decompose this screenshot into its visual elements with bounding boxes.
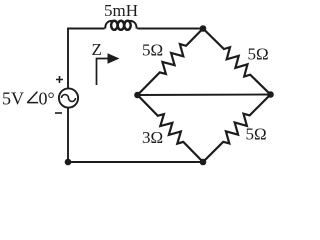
svg-text:3Ω: 3Ω: [142, 128, 163, 147]
node E bottom-left junction dot: [65, 159, 72, 166]
svg-text:0°: 0°: [39, 89, 55, 109]
resistor R2 5ohm top-right arm: [203, 29, 271, 95]
node B left junction dot: [134, 92, 141, 99]
svg-text:5Ω: 5Ω: [248, 44, 269, 63]
minus sign of source: [55, 112, 62, 114]
wire: left rail top (source to top-left corner): [68, 29, 105, 89]
svg-text:5Ω: 5Ω: [142, 40, 163, 59]
wire: middle horizontal of bridge: [138, 94, 271, 97]
svg-text:5mH: 5mH: [104, 1, 138, 20]
angle symbol in 5V label: [27, 92, 38, 103]
node C right junction dot: [267, 91, 274, 98]
resistor R1 5ohm top-left arm: [138, 29, 204, 96]
voltage source VS 5V angle 0: [59, 88, 78, 107]
svg-text:Z: Z: [92, 40, 102, 59]
wire: top run from inductor to top node: [137, 28, 203, 30]
plus sign of source: [27, 76, 63, 113]
node D bottom junction dot: [200, 159, 207, 166]
svg-text:5V: 5V: [2, 89, 24, 109]
resistor R4 5ohm bottom-right arm: [203, 95, 271, 163]
inductor L1 5mH: [105, 21, 136, 30]
Z impedance arrow: [97, 59, 109, 86]
node A top junction dot: [200, 25, 207, 32]
resistor R3 3ohm bottom-left arm: [138, 95, 204, 162]
wire: left rail bottom (source to bottom-left corner): [68, 108, 203, 163]
svg-text:5Ω: 5Ω: [246, 125, 267, 144]
arrowhead of Z: [108, 53, 120, 63]
